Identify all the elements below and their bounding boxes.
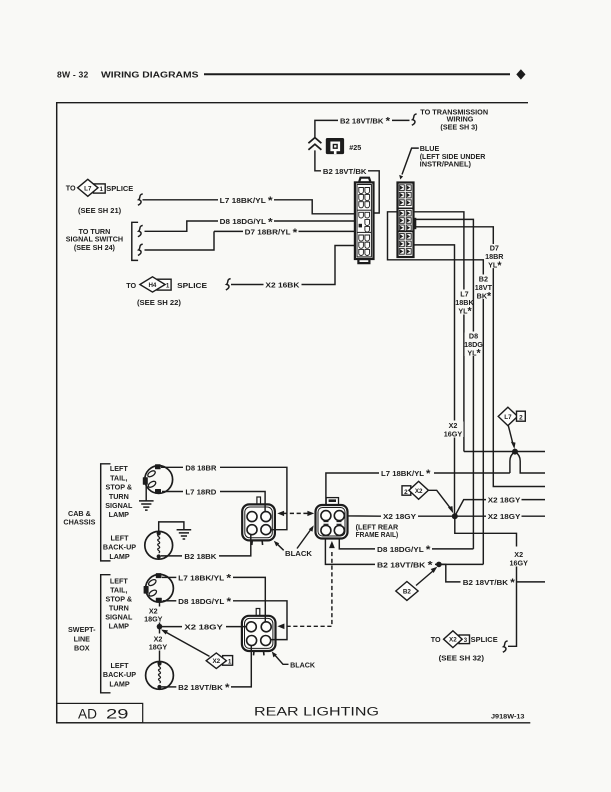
header rule — [204, 73, 510, 75]
svg-text:X2 18GY: X2 18GY — [383, 512, 416, 521]
label X2 18GY (above junction) — [144, 607, 163, 624]
lamp: left back-up (cab and chassis) — [145, 531, 173, 559]
svg-text:X2 18GY: X2 18GY — [488, 512, 521, 521]
squiggle break on D7 wire — [138, 244, 143, 255]
wire L7 18RD from tail lamp to C4 — [162, 492, 265, 512]
wire D8 18DG/YL* from C2 down right side — [414, 219, 474, 549]
wire X2 18GY from junction to C5 — [160, 626, 247, 628]
wire X2 16GY from junction down to splice X2-3 — [455, 516, 517, 646]
label B2 18VT BK* (vertical run) — [475, 274, 493, 302]
squiggle break at splice X2-3 — [503, 641, 508, 652]
svg-text:LEFT: LEFT — [111, 661, 130, 670]
header diamond bullet — [516, 69, 525, 79]
label D8 18DG YL* (vertical run) — [464, 331, 483, 359]
label (LEFT REAR FRAME RAIL) — [356, 523, 399, 540]
svg-text:1: 1 — [166, 283, 170, 290]
label LEFT BACK-UP LAMP (swept) — [103, 661, 136, 688]
wire L7 18BK/YL* from splice L7-1 to connector C1 — [143, 200, 355, 214]
svg-text:INSTR/PANEL): INSTR/PANEL) — [420, 159, 472, 168]
svg-text:LAMP: LAMP — [109, 679, 130, 688]
svg-text:TO: TO — [126, 281, 136, 290]
svg-text:8W - 32: 8W - 32 — [57, 70, 89, 80]
svg-text:18GY: 18GY — [144, 615, 163, 624]
splice symbol X2-2 with leader arrow to junction — [402, 481, 453, 513]
wire X2 18GY from frame rail connector through junction — [344, 515, 545, 518]
label LEFT TAIL STOP & TURN SIGNAL LAMP (upper) — [105, 464, 133, 519]
svg-text:BOX: BOX — [74, 644, 90, 653]
svg-text:BACK-UP: BACK-UP — [103, 543, 136, 552]
bracket for turn signal switch wires — [132, 222, 138, 260]
label X2 16GY (lower right run) — [508, 548, 528, 568]
svg-text:LEFT: LEFT — [111, 534, 130, 543]
splice symbol X2-1 with leader arrow to junction — [161, 630, 233, 669]
label BLUE (LEFT SIDE UNDER INSTR/PANEL) with leader arrow — [399, 144, 486, 179]
label SWEPT-LINE BOX — [68, 625, 96, 652]
connector C5 swept-line box lamps (4-way) — [242, 609, 276, 656]
wire D8 18DG/YL* from turn signal switch to connector C1 — [145, 221, 355, 231]
svg-text:X2 16BK: X2 16BK — [265, 281, 300, 290]
wire L7 branch going right from junction — [515, 452, 545, 473]
svg-text:1: 1 — [228, 658, 232, 665]
svg-text:LAMP: LAMP — [109, 510, 130, 519]
wire X2 16GY from C2 down to splice junction — [414, 245, 455, 516]
footer AD 29 box — [57, 703, 143, 722]
svg-text:D8 18BR: D8 18BR — [185, 463, 217, 472]
squiggle break on X2 wire — [226, 279, 231, 290]
svg-text:LEFT: LEFT — [110, 464, 129, 473]
squiggle break on D8 wire — [138, 225, 143, 236]
svg-text:L7: L7 — [504, 414, 512, 421]
wire L7 18BK/YL* horizontal from frame rail connector to junction — [326, 473, 510, 511]
svg-text:LAMP: LAMP — [109, 552, 130, 561]
svg-text:STOP &: STOP & — [106, 483, 133, 492]
svg-text:SPLICE: SPLICE — [177, 281, 207, 290]
wire B2 18BK from back-up lamp to C4 — [161, 535, 251, 556]
svg-text:TAIL,: TAIL, — [110, 473, 127, 482]
svg-text:SIGNAL: SIGNAL — [105, 613, 133, 622]
note TO TRANSMISSION WIRING (SEE SH 3) — [420, 108, 488, 132]
svg-text:X2: X2 — [449, 637, 457, 644]
connector C1 (instrument panel, 20-way) — [355, 178, 374, 263]
svg-text:REAR LIGHTING: REAR LIGHTING — [254, 706, 379, 718]
wire B2 18VT/BK* branch from junction to right — [439, 564, 545, 582]
label BLACK (upper connectors) with arrows — [274, 525, 314, 557]
splice symbol X2-3 with TO ... SPLICE (SEE SH 32) — [431, 631, 498, 663]
wire D8 18DG/YL* from swept tail lamp to C5 — [163, 601, 287, 640]
wire B2 18VT/BK* loop around C2 down right side — [388, 212, 484, 565]
svg-text:16GY: 16GY — [510, 559, 529, 568]
dashed mating arrow C5 to C3 (below) — [277, 541, 334, 629]
svg-text:(SEE SH 21): (SEE SH 21) — [78, 206, 122, 215]
svg-text:BLACK: BLACK — [290, 661, 316, 670]
svg-text:2: 2 — [404, 489, 408, 496]
wire B2 18VT/BK* top run to transmission — [315, 120, 410, 137]
svg-text:#25: #25 — [349, 143, 361, 152]
wire L7 18BK/YL* from C2 down right side — [414, 212, 464, 452]
svg-text:16GY: 16GY — [444, 429, 463, 438]
svg-text:BACK-UP: BACK-UP — [103, 670, 136, 679]
svg-text:SIGNAL: SIGNAL — [105, 501, 133, 510]
junction dot X2 at swept lamps — [157, 624, 163, 630]
junction dot B2 splice — [436, 562, 442, 568]
wire L7 branch from lamps joining junction — [510, 452, 515, 473]
label X2 16GY (vertical run) — [444, 421, 464, 438]
note TO TURN SIGNAL SWITCH (SEE SH 24) — [66, 227, 123, 252]
label D7 18BR YL* (vertical run) — [485, 244, 504, 272]
dashed mating arrow C4 to C3 — [277, 511, 314, 516]
svg-text:FRAME RAIL): FRAME RAIL) — [356, 530, 399, 539]
svg-text:BLACK: BLACK — [285, 549, 313, 558]
connector C2 blue (left side under instr panel) — [398, 183, 417, 258]
svg-text:X2: X2 — [415, 488, 423, 495]
label L7 18BK YL* (vertical run) — [455, 289, 474, 317]
label LEFT TAIL STOP & TURN SIGNAL LAMP (swept) — [105, 577, 133, 631]
svg-text:29: 29 — [106, 707, 129, 722]
wire D8 18DG/YL* from frame rail connector to D8 vertical — [339, 535, 473, 549]
wire X2 16BK from splice H4-1 to connector C1 — [231, 246, 355, 285]
splice symbol H4-1 with TO ... SPLICE (SEE SH 22) — [126, 277, 207, 307]
wire D8 18BR from tail lamp to C4 — [161, 467, 287, 529]
ground for tail lamp — [139, 486, 154, 510]
svg-text:SPLICE: SPLICE — [106, 184, 133, 193]
junction dot X2 splice — [452, 513, 458, 519]
splice symbol B2 with leader arrow to junction — [396, 567, 438, 601]
wire B2 18VT/BK lower run into connector C1 — [315, 150, 379, 213]
connector pass-through chevrons on B2 wire — [308, 138, 321, 150]
svg-text:1: 1 — [99, 186, 103, 193]
svg-text:TO: TO — [431, 635, 441, 644]
splice symbol #25 (black square) — [326, 138, 344, 154]
svg-text:B2 18BK: B2 18BK — [184, 552, 217, 561]
svg-text:18GY: 18GY — [149, 642, 168, 651]
connector C3 left rear frame rail (4-way) — [316, 498, 348, 539]
wire D7 18BR/YL* from C2 down right side — [414, 227, 546, 487]
ground for back-up lamp via wire — [159, 522, 192, 539]
connector C4 cab and chassis rear lamps (4-way) — [242, 497, 275, 545]
svg-text:LEFT: LEFT — [110, 577, 129, 586]
squiggle break to transmission wiring — [412, 114, 417, 125]
svg-text:L7 18RD: L7 18RD — [185, 487, 216, 496]
splice symbol L7-1 with TO ... SPLICE (SEE SH 21) — [66, 179, 134, 215]
svg-text:X2 18GY: X2 18GY — [488, 495, 521, 504]
wire L7 through-line at junction — [464, 451, 545, 453]
wire X2 18GY from swept tail lamp down to junction — [159, 602, 161, 626]
wire D7 18BR/YL* from turn signal switch to connector C1 — [145, 231, 355, 250]
bracket swept-line box lamps — [101, 575, 111, 693]
label BLACK (lower connector) with arrow — [272, 652, 316, 670]
svg-text:X2 18GY: X2 18GY — [184, 623, 223, 632]
squiggle break on L7 wire — [138, 194, 143, 205]
svg-text:L7: L7 — [84, 185, 92, 192]
lamp: left tail stop turn (cab and chassis) — [143, 464, 173, 494]
svg-text:H4: H4 — [148, 282, 156, 289]
svg-text:(SEE SH 3): (SEE SH 3) — [440, 122, 478, 131]
svg-text:2: 2 — [519, 415, 523, 422]
svg-text:B2: B2 — [403, 589, 412, 596]
junction dot L7 splice — [512, 449, 518, 455]
svg-text:TAIL,: TAIL, — [110, 586, 127, 595]
svg-text:WIRING DIAGRAMS: WIRING DIAGRAMS — [101, 70, 199, 80]
svg-text:CHASSIS: CHASSIS — [63, 517, 95, 526]
diagram frame (left, top, bottom open at right) — [57, 103, 531, 723]
svg-text:(SEE SH 22): (SEE SH 22) — [137, 298, 182, 307]
lamp: left back-up (swept-line) — [146, 661, 174, 689]
lamp: left tail stop turn (swept-line) — [144, 573, 174, 603]
svg-text:TURN: TURN — [109, 492, 129, 501]
label CAB & CHASSIS — [63, 509, 95, 526]
svg-text:AD: AD — [78, 707, 97, 722]
wire X2 18GY from junction down to back-up lamp — [159, 627, 161, 662]
splice symbol L7-2 with leader arrow to junction — [498, 407, 525, 449]
wire L7 18BK/YL* from swept tail lamp to C5 — [162, 577, 265, 621]
svg-text:B2 18VT/BK: B2 18VT/BK — [323, 167, 367, 176]
svg-text:SWEPT-: SWEPT- — [68, 625, 96, 634]
svg-text:J918W-13: J918W-13 — [491, 714, 525, 721]
svg-text:TO: TO — [66, 184, 76, 193]
svg-text:SPLICE: SPLICE — [471, 635, 498, 644]
wire X2 18GY branch up-right from junction — [455, 500, 545, 517]
svg-text:TURN: TURN — [109, 604, 129, 613]
svg-text:X2: X2 — [212, 658, 220, 665]
wire B2 18VT/BK* from swept back-up lamp to C5 — [162, 646, 252, 687]
label X2 18GY (below junction) — [149, 634, 168, 651]
svg-text:(SEE SH 32): (SEE SH 32) — [439, 653, 485, 662]
svg-text:(SEE SH 24): (SEE SH 24) — [74, 243, 116, 252]
wire B2 18VT/BK* from frame rail connector to B2 vertical — [325, 535, 483, 564]
svg-text:STOP &: STOP & — [106, 595, 133, 604]
header title 8W-32 WIRING DIAGRAMS — [57, 70, 199, 80]
svg-text:LINE: LINE — [74, 634, 91, 643]
label LEFT BACK-UP LAMP (upper) — [103, 534, 136, 561]
bracket cab and chassis lamps — [101, 464, 111, 561]
svg-text:LAMP: LAMP — [109, 622, 130, 631]
